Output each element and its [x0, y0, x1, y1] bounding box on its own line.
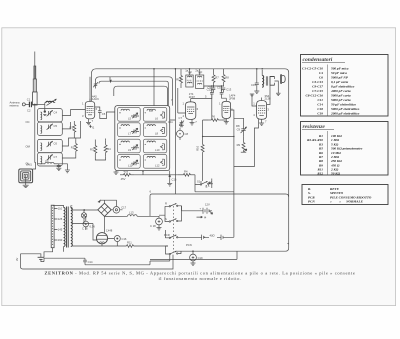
resistor R8 horizontal [208, 115, 222, 122]
wire to ground right [59, 164, 68, 170]
IF can T2 [196, 69, 204, 89]
resistor R2 [71, 140, 78, 155]
resistor R10 vertical [195, 140, 204, 156]
svg-text:6,3V: 6,3V [90, 224, 96, 228]
tuner box L1 cell 2 [38, 122, 63, 135]
wire R1 R2 joins [62, 121, 80, 158]
wire C9 drop to R6 [211, 94, 213, 120]
switch S1 [197, 180, 209, 186]
coil box B2 inner parts [119, 109, 164, 167]
svg-text:C7-C15: C7-C15 [312, 89, 323, 93]
switch S2 contacts [206, 179, 212, 189]
node rail x288 [288, 242, 289, 245]
tuner box L1 cell 1 [38, 109, 63, 122]
svg-text:C1: C1 [27, 98, 31, 102]
wire net under V1 [95, 139, 105, 161]
resistor R1 [70, 121, 76, 136]
wire secondary mid [72, 222, 93, 224]
wire box2 edge down [169, 171, 171, 176]
tube V5 rectifier [96, 229, 112, 244]
power transformer T4 tap board [51, 205, 54, 248]
wire battery2 net [183, 192, 234, 238]
wire y167 net [234, 130, 255, 167]
ground V4 grid [250, 94, 254, 96]
wire tuner to V1 grid [62, 110, 85, 116]
svg-text:C6: C6 [54, 142, 58, 146]
svg-text:C 18: C 18 [150, 224, 156, 228]
label V1 1AC6 [92, 95, 99, 102]
wire C16b net [85, 216, 87, 230]
wire choke to C18 [150, 216, 159, 218]
svg-text:R2: R2 [71, 146, 75, 150]
table resistenze rows [307, 134, 362, 175]
svg-text:125: 125 [58, 217, 63, 221]
svg-text:C18: C18 [317, 107, 323, 111]
label Antenna esterna [10, 101, 21, 108]
wire V2 V3 net top [191, 86, 227, 99]
svg-text:R3: R3 [90, 148, 94, 152]
wire bridge to C17 [111, 209, 122, 211]
wire C14 net [85, 255, 170, 265]
svg-text:R: R [165, 201, 167, 205]
svg-text:R8: R8 [236, 124, 240, 128]
node bus x154 [153, 68, 155, 70]
wire V5 to C16 [108, 239, 118, 247]
svg-text:5000 μF elettrolitico: 5000 μF elettrolitico [331, 107, 360, 111]
ground c15 [254, 91, 259, 93]
resistor R7 below bus [212, 69, 219, 88]
svg-text:C8-C12-C16: C8-C12-C16 [305, 94, 323, 98]
wire mains to bridge [101, 200, 117, 206]
node bus x192 [189, 68, 191, 70]
pin number labels V4 [253, 102, 269, 118]
battery 3V left [15, 257, 44, 261]
svg-text:C14: C14 [317, 103, 323, 107]
svg-text:C17: C17 [121, 206, 126, 210]
wire mid bottom rail [150, 251, 237, 259]
svg-text:5000 pF carta: 5000 pF carta [331, 94, 351, 98]
wire V1 plate to box2 [95, 107, 100, 111]
svg-text:C5: C5 [54, 124, 58, 128]
arrow pointer on wire [109, 80, 111, 83]
battery B2 cell [202, 235, 223, 240]
wire C16 R11 net right [137, 245, 169, 247]
svg-text:12V: 12V [205, 203, 210, 207]
wire feedback 2 [96, 77, 173, 106]
svg-text:C13: C13 [226, 88, 231, 92]
node mains top [83, 209, 85, 211]
svg-text:R10: R10 [195, 145, 199, 150]
capacitor C16 [114, 236, 127, 242]
trimmer C7 [179, 116, 185, 127]
ground below junction [167, 177, 172, 186]
capacitor C8 electrolytic [177, 128, 189, 140]
node C19 [192, 250, 194, 252]
svg-text:» » NORMALE: » » NORMALE [330, 200, 364, 204]
svg-text:condensatori: condensatori [303, 57, 333, 63]
IF can label 2aMF [195, 69, 202, 75]
capacitor C10a series [98, 111, 106, 116]
resistor R4b vertical [104, 141, 111, 157]
wire bus left drop [91, 74, 93, 102]
wire V1 grid cap up [89, 77, 91, 102]
wire V4 pins net [254, 119, 258, 129]
svg-text:C8: C8 [185, 132, 189, 136]
svg-text:C15: C15 [251, 83, 256, 87]
wire bus drop x175 [174, 69, 176, 96]
wire mid verticals [170, 96, 227, 194]
svg-text:C1-C2-C5-C10: C1-C2-C5-C10 [302, 67, 323, 71]
label V3 [229, 94, 236, 101]
battery B1 12V [200, 203, 210, 214]
svg-text:C14: C14 [88, 260, 93, 264]
svg-text:PCN: PCN [308, 200, 315, 204]
svg-text:C 16: C 16 [82, 227, 88, 231]
svg-text:C5: C5 [102, 112, 106, 116]
node box2 bottom junction [142, 170, 144, 172]
pilot lamp P1 [81, 210, 86, 224]
wire sw1 net [159, 206, 183, 254]
wire box2 bottom to right [134, 171, 178, 175]
wire primary top [44, 206, 64, 258]
table condensatori box [301, 55, 389, 117]
loop antenna L3 spiral [19, 169, 33, 183]
arrow tap f4 [197, 216, 207, 220]
svg-text:2F98: 2F98 [229, 96, 236, 100]
tube V1 1AC6 [85, 99, 94, 119]
svg-text:R1: R1 [70, 126, 74, 130]
svg-text:45V: 45V [124, 170, 129, 174]
svg-text:il funzionamento normale e rid: il funzionamento normale e ridotto. [158, 276, 241, 281]
tuner box L2 cell 3 [38, 139, 63, 152]
svg-text:C3-C13: C3-C13 [312, 80, 323, 84]
resistor R2b vertical [90, 142, 97, 158]
table resistenze title [302, 124, 334, 130]
switch SW3 [169, 235, 178, 239]
resistor R11 horizontal [102, 240, 137, 247]
ground below V1 [86, 119, 94, 125]
svg-text:esterna: esterna [10, 104, 19, 108]
antenna A1 telescopic [33, 52, 38, 106]
wire terminal to C1 [25, 103, 29, 105]
wire antenna down to loop [34, 105, 36, 163]
node bus x175 [175, 68, 177, 70]
arrow connector [98, 199, 101, 202]
capacitor C15 pair [251, 80, 259, 89]
svg-text:R12: R12 [176, 78, 181, 82]
svg-text:40Ω: 40Ω [210, 233, 215, 237]
svg-text:45V: 45V [121, 177, 126, 181]
resistor R3b horizontal [120, 170, 134, 177]
wire feedback 3 [114, 86, 168, 105]
node bus x256 [256, 68, 258, 70]
pin number labels V2 [183, 102, 199, 119]
tube V2 1T4 [186, 99, 196, 120]
ground right of tuner [65, 170, 70, 173]
transformer secondary winding [71, 208, 73, 247]
svg-text:MF: MF [188, 71, 192, 75]
table resistenze box [301, 122, 389, 176]
capacitor C8a to ground [54, 164, 61, 171]
svg-text:C19: C19 [317, 112, 323, 116]
svg-text:1X48: 1X48 [106, 229, 113, 233]
resistor R4c horizontal [178, 170, 195, 185]
coil L4 [45, 162, 54, 164]
svg-text:L9: L9 [128, 148, 131, 152]
svg-text:PCN: PCN [186, 243, 192, 247]
svg-text:C6: C6 [149, 109, 153, 113]
svg-text:OM1: OM1 [26, 163, 32, 167]
speaker SP [281, 75, 286, 84]
svg-text:3V: 3V [15, 258, 19, 261]
svg-text:MF: MF [198, 71, 202, 75]
capacitor C1 [27, 98, 35, 108]
svg-text:50 pF mica: 50 pF mica [331, 71, 347, 75]
svg-text:PCR: PCR [164, 233, 170, 237]
svg-text:R4: R4 [184, 170, 188, 174]
svg-text:L11: L11 [128, 164, 133, 168]
potentiometer R5 [237, 136, 247, 152]
wire top bus B+ [92, 69, 289, 251]
capacitor C19 [190, 254, 203, 265]
svg-text:500 pF mica: 500 pF mica [331, 67, 349, 71]
svg-text:S1: S1 [197, 180, 201, 184]
svg-text:5000 pF carta: 5000 pF carta [331, 98, 351, 102]
capacitor C12 [207, 88, 216, 93]
svg-text:R4: R4 [107, 147, 111, 151]
node top nets [211, 85, 222, 86]
IF can label 1aMF [185, 69, 192, 75]
label R S [164, 201, 170, 237]
wire bus drop x154 [153, 69, 155, 106]
wire battery net [182, 206, 213, 211]
coil box B2 outer [115, 106, 170, 171]
resistor R8a below bus [222, 69, 229, 87]
tuner box L2 cell 4 [38, 153, 63, 166]
ground below V2 [190, 120, 198, 126]
svg-text:C16: C16 [172, 178, 177, 182]
svg-text:R7: R7 [215, 76, 219, 80]
pin number labels V3 [219, 102, 233, 112]
svg-text:8 μF elettrolitico: 8 μF elettrolitico [331, 85, 355, 89]
wire c15 drop [256, 69, 258, 91]
ground below V3 [224, 119, 229, 125]
svg-text:C11: C11 [168, 120, 173, 124]
table legend rows [308, 187, 372, 204]
tube V4 3S4 [257, 98, 267, 120]
svg-text:OC: OC [26, 120, 30, 124]
ground under secondary [276, 93, 281, 95]
table condensatori title [302, 57, 345, 63]
svg-text:L12: L12 [155, 164, 160, 168]
node antenna junction [34, 104, 36, 106]
transformer taps [54, 207, 63, 243]
svg-text:C4: C4 [54, 111, 58, 115]
antenna terminal [22, 103, 25, 106]
svg-text:resistenze: resistenze [303, 124, 326, 130]
svg-text:C11: C11 [318, 98, 324, 102]
svg-text:L4: L4 [46, 159, 49, 163]
misc speck labels [149, 95, 240, 194]
capacitor C9 on top [208, 85, 214, 94]
label V2 [189, 92, 196, 99]
ground below loop [23, 183, 29, 188]
trimmer C3 coil [35, 99, 57, 116]
svg-text:50 μF elettrolitico: 50 μF elettrolitico [331, 103, 356, 107]
svg-text:C7: C7 [54, 155, 58, 159]
table condensatori rows [302, 67, 360, 116]
wire y194 rail [150, 194, 289, 216]
svg-text:C9-C17: C9-C17 [312, 85, 323, 89]
svg-text:4000 pF carta: 4000 pF carta [330, 89, 351, 93]
label V4 [265, 94, 271, 101]
V1 pin arrow f1 [90, 125, 95, 130]
wire V4 plate up [267, 85, 270, 104]
trimmer C9a on feedback [93, 81, 98, 89]
wire C19 to rail [192, 251, 194, 254]
IF can T1 [186, 69, 193, 87]
svg-text:2000 μF elettrolitico: 2000 μF elettrolitico [330, 112, 360, 116]
svg-text:L13: L13 [129, 211, 134, 215]
transformer core [67, 207, 69, 248]
svg-text:L7: L7 [128, 132, 131, 136]
switch SW1 [169, 203, 178, 207]
node junction C16c [169, 175, 171, 177]
svg-text:OM: OM [26, 145, 31, 149]
svg-text:110: 110 [58, 207, 63, 211]
capacitor C17 [113, 206, 127, 214]
svg-text:R12: R12 [317, 171, 323, 175]
switch link dashed [172, 206, 174, 252]
table legend box [302, 185, 388, 205]
svg-text:L6: L6 [155, 117, 158, 121]
wire bottom rail long [21, 254, 174, 269]
svg-text:145: 145 [58, 228, 63, 232]
svg-text:50 KΩ: 50 KΩ [331, 171, 340, 175]
ground below V4 [259, 119, 267, 125]
wire V5 left [93, 216, 105, 240]
bridge rectifier D1 [98, 203, 111, 216]
wire shielded pair [178, 88, 186, 113]
svg-text:1AC6: 1AC6 [92, 97, 99, 101]
capacitor C16b [82, 221, 89, 230]
ground below box B2 [114, 171, 119, 175]
svg-text:C4: C4 [319, 71, 323, 75]
svg-text:R11: R11 [127, 240, 132, 244]
wire secondary bottom [72, 244, 102, 247]
svg-text:L10: L10 [155, 148, 160, 152]
pin number labels V1 [82, 102, 98, 119]
choke L13 [105, 211, 151, 217]
svg-text:L8: L8 [155, 132, 158, 136]
svg-text:160: 160 [58, 238, 63, 242]
node bus x262 [261, 68, 263, 70]
capacitor C18 [150, 218, 162, 230]
wire secondary top to bridge [71, 206, 98, 210]
transformer primary winding [64, 208, 66, 247]
wire C to box2 [100, 112, 115, 119]
wire switch net [195, 184, 234, 192]
output transformer T3 [262, 70, 274, 87]
svg-text:5000 pF NP: 5000 pF NP [331, 76, 349, 80]
capacitor C10 on top [217, 85, 223, 94]
resistor R5a below bus [180, 69, 183, 88]
coil box B2 cells [118, 108, 167, 169]
switch SW2 [169, 219, 178, 223]
wire V1 left vertical [62, 122, 70, 129]
svg-text:C9: C9 [237, 127, 241, 131]
svg-text:L5: L5 [128, 117, 131, 121]
capacitor C13 [222, 88, 232, 93]
switch SW4 [169, 251, 178, 255]
wire V4 grid left [252, 94, 257, 106]
svg-text:C16: C16 [122, 237, 127, 241]
svg-text:R8: R8 [225, 76, 229, 80]
wire 3V to C14 [21, 254, 86, 262]
trimmer C11b [237, 121, 247, 136]
tube V3 1AF4 [222, 98, 231, 118]
svg-text:C6: C6 [319, 76, 323, 80]
wire feedback 2b [99, 81, 168, 105]
wire secondary to ground [275, 81, 279, 93]
wire loop to tuner [33, 163, 36, 169]
svg-text:R9: R9 [237, 143, 241, 147]
wire tuner bottom out [38, 163, 46, 165]
wire v3 bottom to pot [203, 110, 244, 192]
capacitor C14 [83, 258, 93, 265]
svg-text:0,1 μF carta: 0,1 μF carta [331, 80, 348, 84]
resistor 40ohm coil [210, 233, 215, 237]
svg-text:C2: C2 [27, 109, 31, 113]
